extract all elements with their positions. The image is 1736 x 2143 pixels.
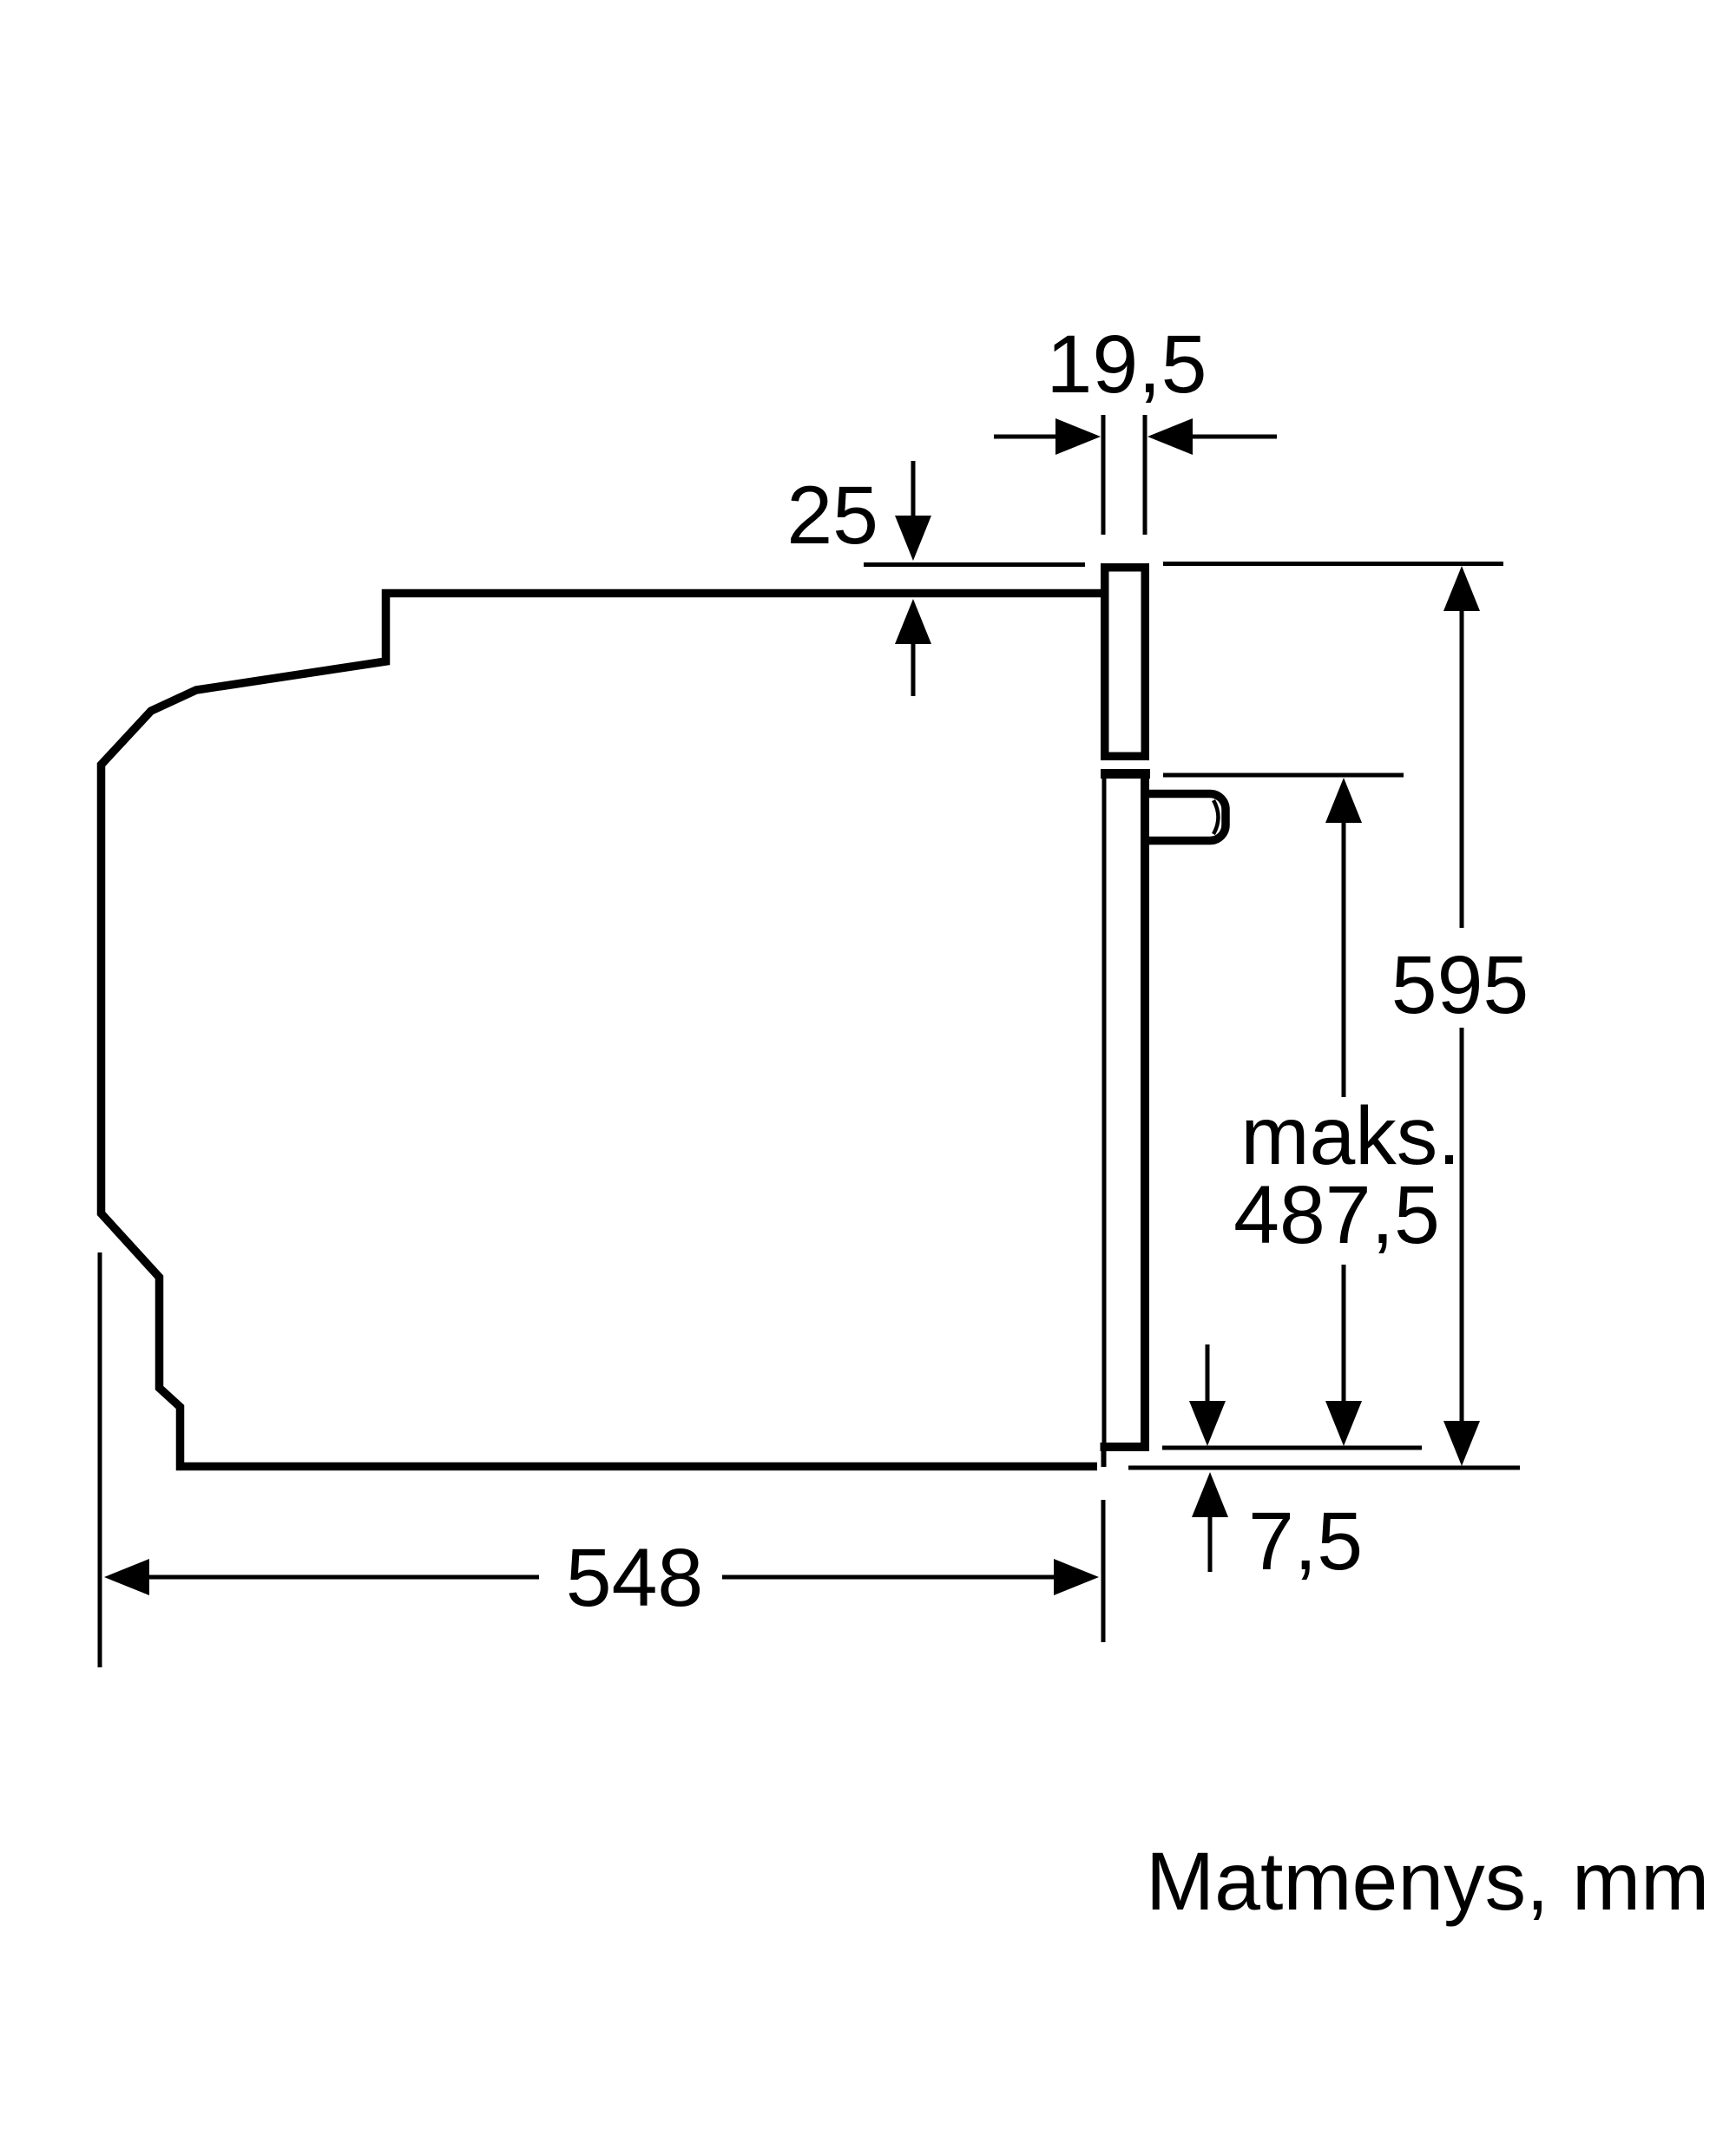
dimension 19,5 left arrow (994, 435, 1057, 439)
dimension 548 left extension line (98, 1252, 102, 1667)
niche top reference line right (595 dim top) (1163, 562, 1503, 566)
dimension 595 line upper segment with up arrow (1460, 608, 1464, 928)
dimension 548 left arrow (104, 1559, 149, 1595)
dimension 25 down arrow (911, 461, 916, 519)
svg-text:487,5: 487,5 (1233, 1169, 1440, 1261)
door front panel (side view strip) (1102, 779, 1107, 1447)
oven bottom reference line (595 bottom / 7,5 bottom) (1128, 1466, 1520, 1470)
dimension 7,5 down arrow (1206, 1344, 1210, 1403)
oven body outline (102, 594, 1101, 1467)
svg-text:548: 548 (566, 1532, 704, 1624)
dimension 548 right arrow (1054, 1559, 1099, 1595)
dimension 595 line lower segment with down arrow (1460, 1028, 1464, 1423)
door handle (1145, 794, 1226, 841)
niche top reference line left (25 dim) (864, 562, 1085, 567)
oven control panel (door top section) (1105, 568, 1146, 757)
handle inner arc (1213, 800, 1219, 834)
dimension 19,5 left extension line (1101, 415, 1106, 535)
door top edge step (1101, 769, 1150, 779)
door bottom reference line (7,5 top / maks 487,5 bottom) (1162, 1446, 1422, 1450)
dimension 19,5 right arrow (1191, 435, 1277, 439)
svg-text:Matmenys, mm: Matmenys, mm (1146, 1836, 1709, 1928)
dimension 548 right extension line (1101, 1500, 1106, 1642)
svg-text:7,5: 7,5 (1248, 1495, 1363, 1588)
dimension 7,5 up arrow (1208, 1517, 1213, 1572)
svg-text:25: 25 (786, 470, 878, 562)
dimension 25 up arrow (911, 641, 916, 696)
dimension maks 487,5 line lower segment with down arrow (1342, 1265, 1346, 1403)
dimension maks 487,5 line upper segment with up arrow (1342, 819, 1346, 1097)
svg-text:595: 595 (1391, 939, 1529, 1031)
handle-top reference line (maks 487,5 top) (1163, 773, 1404, 778)
svg-text:19,5: 19,5 (1047, 319, 1207, 411)
dimension 19,5 right extension line (1143, 415, 1147, 535)
